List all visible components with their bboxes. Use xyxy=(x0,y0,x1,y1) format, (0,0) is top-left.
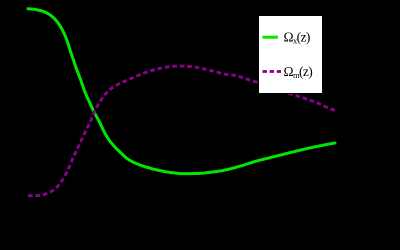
svg-text:Ωx(z): Ωx(z) xyxy=(284,30,310,46)
